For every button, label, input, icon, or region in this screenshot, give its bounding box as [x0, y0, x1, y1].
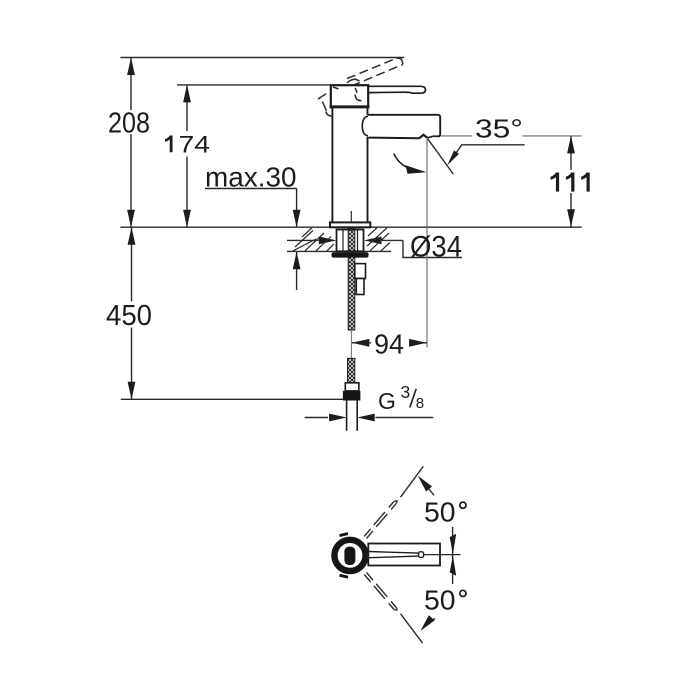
svg-text:3: 3 — [401, 382, 411, 402]
svg-text:8: 8 — [416, 395, 424, 412]
svg-text:Ø34: Ø34 — [410, 230, 462, 263]
svg-text:74: 74 — [179, 131, 211, 158]
svg-text:max.30: max.30 — [205, 161, 297, 192]
svg-text:G: G — [378, 388, 396, 414]
svg-text:50: 50 — [424, 496, 456, 527]
svg-text:94: 94 — [374, 328, 404, 359]
svg-text:50: 50 — [424, 585, 456, 616]
svg-text:450: 450 — [106, 300, 152, 332]
svg-text:208: 208 — [108, 107, 150, 139]
svg-text:35°: 35° — [475, 114, 523, 144]
